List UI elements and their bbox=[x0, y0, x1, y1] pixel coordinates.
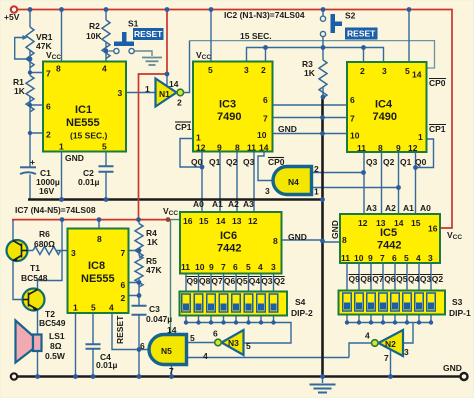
svg-text:16: 16 bbox=[183, 216, 193, 226]
svg-text:7: 7 bbox=[169, 366, 174, 376]
svg-text:0.5W: 0.5W bbox=[45, 351, 66, 361]
svg-text:6: 6 bbox=[46, 102, 51, 112]
svg-text:Q9: Q9 bbox=[349, 274, 361, 284]
svg-text:BC548: BC548 bbox=[21, 273, 48, 283]
svg-text:9: 9 bbox=[217, 143, 222, 153]
svg-text:8: 8 bbox=[273, 236, 278, 246]
svg-text:A1: A1 bbox=[403, 203, 414, 213]
svg-text:+5V: +5V bbox=[4, 12, 20, 22]
svg-text:A0: A0 bbox=[193, 199, 204, 209]
svg-text:NE555: NE555 bbox=[66, 117, 100, 129]
svg-text:S1: S1 bbox=[128, 19, 139, 29]
svg-text:A3: A3 bbox=[366, 203, 377, 213]
svg-text:6: 6 bbox=[263, 95, 268, 105]
svg-text:9: 9 bbox=[396, 143, 401, 153]
svg-text:Q1: Q1 bbox=[400, 157, 412, 167]
svg-text:IC1: IC1 bbox=[75, 104, 92, 116]
svg-text:R6: R6 bbox=[39, 229, 50, 239]
svg-text:Q3: Q3 bbox=[420, 274, 432, 284]
svg-text:2: 2 bbox=[314, 164, 319, 174]
svg-text:11: 11 bbox=[247, 143, 256, 153]
svg-text:9: 9 bbox=[368, 253, 373, 263]
svg-text:IC4: IC4 bbox=[375, 99, 393, 111]
svg-text:Q0: Q0 bbox=[415, 157, 427, 167]
svg-text:1: 1 bbox=[314, 187, 319, 197]
svg-text:7: 7 bbox=[121, 248, 126, 258]
svg-text:6: 6 bbox=[233, 262, 238, 272]
svg-text:1: 1 bbox=[196, 133, 201, 143]
svg-text:10K: 10K bbox=[86, 31, 102, 41]
svg-text:N3: N3 bbox=[228, 338, 239, 348]
svg-text:1: 1 bbox=[418, 132, 423, 142]
svg-text:N4: N4 bbox=[288, 177, 299, 187]
svg-text:Q8: Q8 bbox=[360, 274, 372, 284]
svg-text:CP1: CP1 bbox=[175, 122, 192, 132]
svg-text:12: 12 bbox=[196, 143, 206, 153]
svg-text:Q4: Q4 bbox=[249, 276, 261, 286]
svg-text:RESET: RESET bbox=[134, 29, 163, 39]
svg-text:5: 5 bbox=[246, 262, 251, 272]
svg-text:13: 13 bbox=[232, 216, 242, 226]
svg-text:4: 4 bbox=[365, 331, 370, 341]
svg-text:Q1: Q1 bbox=[209, 157, 221, 167]
svg-text:9: 9 bbox=[209, 262, 214, 272]
svg-text:1K: 1K bbox=[14, 86, 26, 96]
svg-text:IC3: IC3 bbox=[219, 99, 236, 111]
svg-text:6: 6 bbox=[350, 95, 355, 105]
svg-text:15 SEC.: 15 SEC. bbox=[240, 31, 272, 41]
svg-text:GND: GND bbox=[288, 232, 307, 242]
svg-text:3: 3 bbox=[404, 347, 409, 357]
svg-text:4: 4 bbox=[258, 262, 263, 272]
svg-text:4: 4 bbox=[102, 64, 107, 74]
svg-text:5: 5 bbox=[246, 341, 251, 351]
svg-text:1: 1 bbox=[73, 303, 78, 313]
svg-text:S2: S2 bbox=[345, 11, 356, 21]
svg-text:IC5: IC5 bbox=[380, 227, 397, 239]
svg-text:A1: A1 bbox=[212, 199, 223, 209]
svg-text:IC7 (N4-N5)=74LS08: IC7 (N4-N5)=74LS08 bbox=[15, 205, 96, 215]
svg-text:IC2 (N1-N3)=74LS04: IC2 (N1-N3)=74LS04 bbox=[224, 10, 305, 20]
svg-text:DIP-2: DIP-2 bbox=[291, 308, 313, 318]
svg-text:DIP-1: DIP-1 bbox=[449, 308, 471, 318]
svg-text:1: 1 bbox=[145, 84, 150, 94]
svg-text:RESET: RESET bbox=[115, 315, 125, 344]
svg-text:Q7: Q7 bbox=[211, 276, 223, 286]
svg-text:Q2: Q2 bbox=[226, 157, 238, 167]
svg-text:CP0: CP0 bbox=[268, 157, 285, 167]
svg-text:14: 14 bbox=[167, 325, 177, 335]
svg-text:11: 11 bbox=[357, 143, 366, 153]
svg-text:8: 8 bbox=[97, 234, 102, 244]
svg-text:10: 10 bbox=[257, 130, 267, 140]
svg-text:Q7: Q7 bbox=[372, 274, 384, 284]
svg-text:7: 7 bbox=[46, 69, 51, 79]
svg-text:8: 8 bbox=[378, 143, 383, 153]
svg-text:15: 15 bbox=[411, 218, 421, 228]
svg-text:A0: A0 bbox=[420, 203, 431, 213]
svg-text:A2: A2 bbox=[228, 199, 239, 209]
svg-text:3: 3 bbox=[428, 253, 433, 263]
svg-text:11: 11 bbox=[341, 253, 350, 263]
svg-text:7: 7 bbox=[380, 253, 385, 263]
svg-text:7442: 7442 bbox=[217, 243, 241, 255]
svg-text:7490: 7490 bbox=[217, 111, 241, 123]
svg-text:CP1: CP1 bbox=[429, 124, 446, 134]
svg-text:5: 5 bbox=[404, 253, 409, 263]
svg-text:10: 10 bbox=[354, 253, 364, 263]
svg-text:3: 3 bbox=[271, 262, 276, 272]
svg-text:5: 5 bbox=[405, 66, 410, 76]
svg-text:GND: GND bbox=[330, 220, 340, 239]
svg-text:2: 2 bbox=[360, 66, 365, 76]
svg-text:7490: 7490 bbox=[373, 111, 397, 123]
svg-text:Q2: Q2 bbox=[383, 157, 395, 167]
svg-text:5: 5 bbox=[190, 333, 195, 343]
svg-text:10: 10 bbox=[195, 262, 205, 272]
svg-text:Q6: Q6 bbox=[224, 276, 236, 286]
svg-text:RESET: RESET bbox=[347, 29, 376, 39]
svg-text:GND: GND bbox=[443, 363, 462, 373]
svg-text:0.01µ: 0.01µ bbox=[96, 360, 118, 370]
svg-text:3: 3 bbox=[71, 248, 76, 258]
svg-text:3: 3 bbox=[265, 186, 270, 196]
svg-text:Q8: Q8 bbox=[199, 276, 211, 286]
svg-text:T1: T1 bbox=[30, 263, 40, 273]
svg-text:8: 8 bbox=[56, 64, 61, 74]
svg-text:N5: N5 bbox=[161, 346, 172, 356]
svg-text:N2: N2 bbox=[385, 339, 396, 349]
svg-text:Q2: Q2 bbox=[432, 274, 444, 284]
svg-text:8: 8 bbox=[235, 143, 240, 153]
svg-text:(15 SEC.): (15 SEC.) bbox=[70, 131, 107, 141]
svg-text:1K: 1K bbox=[304, 68, 316, 78]
svg-text:4: 4 bbox=[109, 303, 114, 313]
svg-text:12: 12 bbox=[248, 216, 258, 226]
svg-text:GND: GND bbox=[278, 124, 297, 134]
svg-text:3: 3 bbox=[118, 88, 123, 98]
svg-text:C3: C3 bbox=[149, 304, 160, 314]
svg-text:12: 12 bbox=[408, 143, 418, 153]
svg-text:16: 16 bbox=[428, 224, 438, 234]
svg-text:LS1: LS1 bbox=[49, 331, 65, 341]
svg-text:A2: A2 bbox=[385, 203, 396, 213]
svg-text:16V: 16V bbox=[39, 186, 54, 196]
svg-text:47K: 47K bbox=[146, 265, 162, 275]
svg-text:6: 6 bbox=[121, 280, 126, 290]
svg-text:7: 7 bbox=[221, 262, 226, 272]
svg-text:10: 10 bbox=[350, 131, 360, 141]
svg-text:IC6: IC6 bbox=[220, 230, 237, 242]
svg-text:IC8: IC8 bbox=[88, 260, 105, 272]
svg-text:2: 2 bbox=[121, 293, 126, 303]
svg-text:6: 6 bbox=[392, 253, 397, 263]
svg-text:S3: S3 bbox=[452, 297, 463, 307]
svg-text:7442: 7442 bbox=[377, 240, 401, 252]
svg-text:3: 3 bbox=[382, 66, 387, 76]
svg-text:4: 4 bbox=[416, 253, 421, 263]
svg-text:Q9: Q9 bbox=[187, 276, 199, 286]
svg-text:4: 4 bbox=[203, 351, 208, 361]
svg-text:CP0: CP0 bbox=[429, 78, 446, 88]
svg-text:680Ω: 680Ω bbox=[34, 239, 55, 249]
svg-text:14: 14 bbox=[169, 79, 179, 89]
svg-text:7: 7 bbox=[384, 353, 389, 363]
svg-text:14: 14 bbox=[216, 216, 226, 226]
svg-text:A3: A3 bbox=[243, 199, 254, 209]
svg-text:+: + bbox=[30, 157, 35, 167]
svg-text:S4: S4 bbox=[295, 297, 306, 307]
svg-text:Q2: Q2 bbox=[274, 276, 286, 286]
svg-text:3: 3 bbox=[244, 65, 249, 75]
svg-text:15: 15 bbox=[199, 216, 209, 226]
svg-text:12: 12 bbox=[358, 218, 368, 228]
svg-text:Q3: Q3 bbox=[243, 157, 255, 167]
svg-text:8Ω: 8Ω bbox=[50, 341, 62, 351]
svg-text:14: 14 bbox=[412, 70, 422, 80]
svg-text:2: 2 bbox=[177, 98, 182, 108]
svg-text:NE555: NE555 bbox=[81, 273, 115, 285]
svg-text:Q3: Q3 bbox=[261, 276, 273, 286]
svg-text:5: 5 bbox=[102, 142, 107, 152]
svg-text:1: 1 bbox=[59, 142, 64, 152]
svg-text:GND: GND bbox=[65, 153, 84, 163]
svg-text:0.01µ: 0.01µ bbox=[78, 177, 100, 187]
svg-text:5: 5 bbox=[91, 303, 96, 313]
svg-text:5: 5 bbox=[208, 65, 213, 75]
svg-text:11: 11 bbox=[181, 262, 190, 272]
svg-text:2: 2 bbox=[46, 130, 51, 140]
svg-text:Q4: Q4 bbox=[408, 274, 420, 284]
svg-text:7: 7 bbox=[263, 114, 268, 124]
svg-text:N1: N1 bbox=[159, 89, 170, 99]
svg-text:Q3: Q3 bbox=[366, 157, 378, 167]
svg-text:8: 8 bbox=[342, 235, 347, 245]
svg-text:R2: R2 bbox=[89, 21, 100, 31]
svg-text:14: 14 bbox=[259, 143, 269, 153]
svg-text:Q6: Q6 bbox=[384, 274, 396, 284]
svg-text:7: 7 bbox=[350, 114, 355, 124]
svg-text:0.047µ: 0.047µ bbox=[146, 314, 172, 324]
svg-text:2: 2 bbox=[261, 65, 266, 75]
svg-text:Q0: Q0 bbox=[191, 157, 203, 167]
svg-text:BC549: BC549 bbox=[39, 318, 66, 328]
svg-text:Q5: Q5 bbox=[396, 274, 408, 284]
svg-text:1K: 1K bbox=[147, 237, 159, 247]
svg-text:6: 6 bbox=[140, 341, 145, 351]
svg-text:Q5: Q5 bbox=[236, 276, 248, 286]
svg-text:6: 6 bbox=[213, 329, 218, 339]
